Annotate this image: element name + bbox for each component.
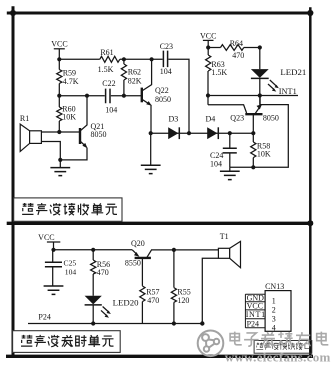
svg-text:8050: 8050	[155, 95, 171, 104]
svg-text:R61: R61	[100, 48, 113, 57]
svg-text:Q23: Q23	[230, 113, 244, 122]
svg-text:VCC: VCC	[200, 32, 216, 41]
svg-text:4.7K: 4.7K	[63, 77, 79, 86]
svg-text:INT1: INT1	[246, 310, 266, 319]
svg-text:4: 4	[272, 323, 276, 332]
svg-text:R1: R1	[20, 114, 29, 123]
svg-text:10K: 10K	[62, 113, 76, 122]
svg-text:470: 470	[232, 51, 244, 60]
svg-text:D4: D4	[206, 114, 216, 123]
svg-text:1: 1	[272, 296, 276, 305]
svg-text:C25: C25	[64, 259, 77, 268]
svg-text:8050: 8050	[91, 130, 107, 139]
svg-text:LED21: LED21	[280, 67, 306, 77]
svg-text:104: 104	[105, 106, 117, 115]
svg-text:VCC: VCC	[38, 233, 54, 242]
svg-text:P24: P24	[247, 319, 259, 328]
svg-text:VCC: VCC	[51, 40, 67, 49]
svg-text:82K: 82K	[128, 77, 142, 86]
svg-text:www.elecfans.com: www.elecfans.com	[225, 350, 331, 365]
svg-text:1.5K: 1.5K	[211, 68, 227, 77]
svg-text:R64: R64	[230, 39, 243, 48]
svg-text:470: 470	[97, 268, 109, 277]
svg-text:P24: P24	[38, 313, 50, 322]
svg-text:3: 3	[272, 314, 276, 323]
svg-text:104: 104	[210, 160, 222, 169]
svg-text:LED20: LED20	[113, 297, 139, 307]
svg-text:10K: 10K	[257, 149, 271, 158]
svg-text:D3: D3	[169, 114, 179, 123]
svg-text:C23: C23	[160, 42, 173, 51]
svg-text:CN13: CN13	[265, 282, 284, 291]
svg-text:104: 104	[65, 268, 77, 277]
svg-text:8550: 8550	[125, 259, 141, 268]
svg-text:104: 104	[160, 67, 172, 76]
svg-text:R62: R62	[128, 68, 141, 77]
svg-text:8050: 8050	[263, 113, 279, 122]
svg-text:C22: C22	[102, 79, 115, 88]
svg-text:Q20: Q20	[131, 239, 145, 248]
svg-text:120: 120	[177, 296, 189, 305]
svg-text:INT1: INT1	[279, 87, 297, 96]
svg-text:T1: T1	[220, 232, 229, 241]
svg-text:1.5K: 1.5K	[98, 65, 114, 74]
svg-text:470: 470	[147, 296, 159, 305]
svg-text:2: 2	[272, 305, 276, 314]
